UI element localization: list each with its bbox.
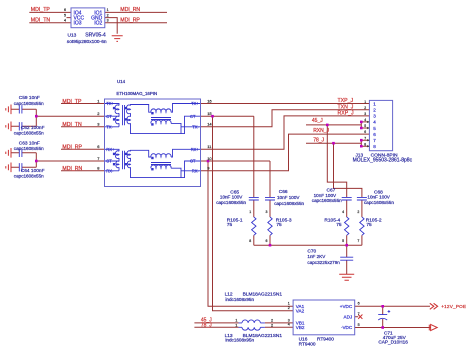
- svg-text:78_J: 78_J: [313, 138, 324, 144]
- svg-text:5: 5: [342, 239, 344, 243]
- svg-text:indc1608x95n: indc1608x95n: [225, 338, 254, 343]
- svg-text:RX+: RX+: [106, 147, 115, 152]
- svg-text:capc1608x55n: capc1608x55n: [312, 198, 342, 203]
- svg-text:MDI_RN: MDI_RN: [62, 166, 82, 172]
- svg-text:VA2: VA2: [296, 309, 305, 314]
- svg-text:1: 1: [288, 302, 290, 306]
- svg-text:1: 1: [249, 210, 251, 214]
- svg-text:MDI_RP: MDI_RP: [62, 145, 82, 151]
- svg-text:CT: CT: [106, 159, 112, 164]
- svg-text:CT: CT: [190, 114, 196, 119]
- svg-text:MDI_RN: MDI_RN: [120, 7, 140, 13]
- svg-text:TX+: TX+: [191, 101, 199, 106]
- svg-text:3: 3: [107, 19, 109, 23]
- svg-text:VB2: VB2: [296, 325, 305, 330]
- svg-text:2: 2: [357, 210, 359, 214]
- svg-text:1: 1: [235, 324, 237, 328]
- svg-text:TX-: TX-: [192, 125, 199, 130]
- svg-text:4: 4: [373, 120, 376, 125]
- svg-text:MDI_TN: MDI_TN: [31, 18, 51, 24]
- svg-text:+VDC: +VDC: [340, 304, 353, 309]
- svg-text:15: 15: [207, 111, 212, 116]
- svg-text:RXP_J: RXP_J: [338, 111, 355, 117]
- svg-text:capc1608x55n: capc1608x55n: [14, 101, 44, 106]
- svg-text:MDI_TN: MDI_TN: [62, 122, 82, 128]
- svg-text:2: 2: [288, 306, 290, 310]
- svg-text:14: 14: [207, 122, 212, 127]
- svg-text:ADJ: ADJ: [344, 314, 353, 319]
- svg-text:TXP_J: TXP_J: [338, 98, 354, 104]
- svg-text:16: 16: [207, 98, 212, 103]
- svg-text:capc1608x55n: capc1608x55n: [14, 173, 44, 178]
- svg-text:RT9400: RT9400: [299, 342, 316, 348]
- svg-text:6: 6: [265, 239, 267, 243]
- svg-text:capc1608x55n: capc1608x55n: [274, 201, 304, 206]
- svg-text:sot95p280x100-6n: sot95p280x100-6n: [67, 39, 107, 45]
- svg-text:6: 6: [364, 130, 366, 134]
- svg-text:6: 6: [358, 302, 360, 306]
- svg-text:4: 4: [288, 323, 290, 327]
- svg-text:5: 5: [364, 124, 366, 128]
- svg-text:1: 1: [235, 318, 237, 322]
- svg-text:MDI_TP: MDI_TP: [62, 99, 82, 105]
- svg-text:8: 8: [364, 142, 366, 146]
- svg-text:3: 3: [373, 114, 376, 119]
- svg-text:7: 7: [358, 312, 360, 316]
- svg-text:capc1608x55n: capc1608x55n: [216, 200, 246, 205]
- svg-text:7: 7: [373, 138, 376, 143]
- svg-text:MDI_TP: MDI_TP: [31, 7, 51, 13]
- svg-text:2: 2: [271, 324, 273, 328]
- svg-text:75: 75: [366, 222, 372, 228]
- svg-text:RXN_J: RXN_J: [313, 128, 329, 134]
- svg-text:75: 75: [227, 222, 233, 228]
- svg-text:1: 1: [107, 8, 109, 12]
- svg-text:75: 75: [336, 222, 342, 228]
- svg-text:4: 4: [342, 210, 344, 214]
- svg-text:1nF 2KV: 1nF 2KV: [307, 254, 326, 259]
- svg-text:2: 2: [107, 13, 109, 17]
- svg-text:8: 8: [373, 144, 376, 149]
- svg-text:1: 1: [373, 102, 376, 107]
- svg-text:RX-: RX-: [106, 169, 114, 174]
- svg-text:1: 1: [364, 100, 366, 104]
- svg-text:75: 75: [276, 222, 282, 228]
- svg-text:2: 2: [364, 106, 366, 110]
- svg-text:indc1608x95n: indc1608x95n: [225, 297, 254, 302]
- svg-text:CAP_D10H16: CAP_D10H16: [378, 339, 408, 344]
- svg-text:IO2: IO2: [94, 21, 102, 27]
- svg-text:10: 10: [207, 156, 212, 161]
- svg-text:IO3: IO3: [74, 21, 82, 27]
- svg-text:10nF 100V: 10nF 100V: [277, 195, 300, 200]
- svg-text:ETH100MAG_16PIN: ETH100MAG_16PIN: [116, 91, 157, 96]
- svg-text:7: 7: [364, 136, 366, 140]
- svg-text:-VDC: -VDC: [341, 325, 353, 330]
- svg-text:capc1608x55n: capc1608x55n: [364, 200, 394, 205]
- svg-text:6: 6: [64, 8, 66, 12]
- svg-text:3: 3: [265, 210, 267, 214]
- svg-text:RX+: RX+: [191, 147, 200, 152]
- svg-text:6: 6: [373, 132, 376, 137]
- svg-text:5: 5: [358, 323, 360, 327]
- svg-text:4: 4: [364, 118, 366, 122]
- svg-text:RX-: RX-: [192, 169, 200, 174]
- svg-text:4: 4: [64, 19, 66, 23]
- svg-text:U13: U13: [68, 33, 77, 39]
- svg-text:3: 3: [288, 318, 290, 322]
- svg-text:2: 2: [271, 318, 273, 322]
- svg-text:5: 5: [373, 126, 376, 131]
- svg-text:CT: CT: [106, 114, 112, 119]
- svg-text:78_J: 78_J: [201, 323, 212, 329]
- svg-text:45_J: 45_J: [312, 118, 323, 124]
- svg-text:7: 7: [357, 239, 359, 243]
- svg-text:capc3225x279n: capc3225x279n: [307, 260, 340, 265]
- svg-text:RT9400: RT9400: [317, 336, 334, 342]
- svg-text:U16: U16: [299, 336, 308, 342]
- svg-text:capc1608x55n: capc1608x55n: [14, 146, 44, 151]
- svg-text:MDI_RP: MDI_RP: [120, 18, 140, 24]
- svg-text:3: 3: [364, 112, 366, 116]
- svg-text:TX-: TX-: [106, 125, 113, 130]
- svg-text:MOLEX_95503-2861-8p8c: MOLEX_95503-2861-8p8c: [353, 158, 413, 164]
- svg-text:8: 8: [249, 239, 251, 243]
- svg-text:2: 2: [373, 108, 376, 113]
- svg-text:SRV05-4: SRV05-4: [85, 33, 106, 39]
- svg-text:CT: CT: [190, 159, 196, 164]
- svg-text:capc1608x55n: capc1608x55n: [14, 130, 44, 135]
- svg-text:U14: U14: [117, 79, 126, 84]
- svg-text:5: 5: [64, 13, 66, 17]
- svg-text:TXN_J: TXN_J: [338, 105, 354, 111]
- svg-text:+12V_POE: +12V_POE: [441, 304, 466, 309]
- svg-text:10nF 100V: 10nF 100V: [314, 193, 337, 198]
- svg-text:TX+: TX+: [106, 101, 114, 106]
